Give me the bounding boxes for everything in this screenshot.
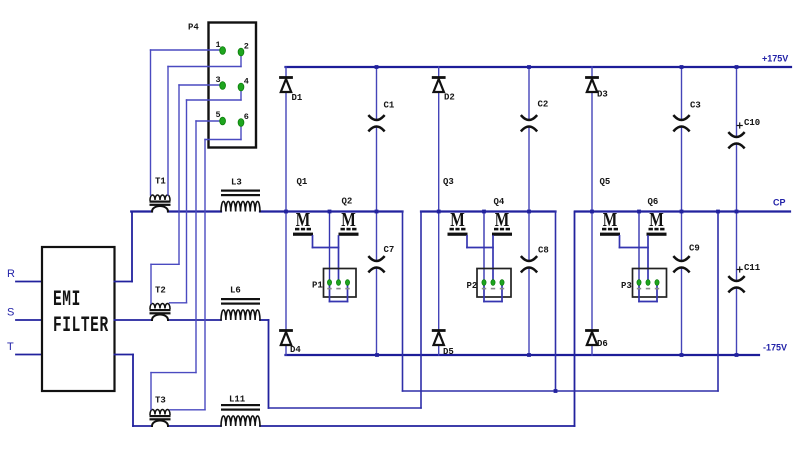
svg-text:C3: C3 xyxy=(690,101,701,111)
wire T input xyxy=(16,354,42,356)
svg-text:P4: P4 xyxy=(188,23,199,33)
capacitor C11 xyxy=(729,263,761,292)
wire CP phase A segment xyxy=(131,210,402,212)
svg-text:Q1: Q1 xyxy=(297,177,308,187)
transistor Q3 (MOSFET) xyxy=(443,177,468,236)
wire C10/C11 branch xyxy=(736,67,738,355)
wire P4 pin5 to T3 xyxy=(151,121,223,410)
wire EMI output T run xyxy=(115,212,575,427)
phase B main vertical wire (D2/D5 branch) xyxy=(438,67,440,355)
svg-text:6: 6 xyxy=(244,112,249,122)
transformer T2 xyxy=(150,286,171,321)
svg-text:D1: D1 xyxy=(292,93,303,103)
svg-text:L3: L3 xyxy=(231,178,242,188)
svg-text:T1: T1 xyxy=(155,177,166,187)
transistor Q5 (MOSFET) xyxy=(600,177,621,236)
svg-text:M: M xyxy=(649,209,664,231)
P2 pins xyxy=(482,280,504,286)
EMI filter box U-EMI xyxy=(42,247,115,391)
wire CP tap to P1 pin1 xyxy=(329,212,331,283)
wire P2 pin1-pin3 jumper loop xyxy=(484,285,502,302)
P3 pins xyxy=(637,280,659,286)
svg-text:1: 1 xyxy=(216,40,221,50)
svg-text:M: M xyxy=(296,209,311,231)
wire EMI output R to phase A xyxy=(115,281,133,283)
P1 pins xyxy=(327,280,349,286)
capacitor C2 xyxy=(522,100,549,131)
svg-text:D6: D6 xyxy=(597,339,608,349)
wire CP lower return bus xyxy=(403,212,719,392)
wire Q3/Q4 source join to P2 pin2 xyxy=(467,236,493,282)
svg-text:Q6: Q6 xyxy=(648,197,659,207)
svg-text:CP: CP xyxy=(773,198,786,208)
capacitor C7 xyxy=(369,245,394,272)
svg-text:Q5: Q5 xyxy=(600,177,611,187)
wire P4 pin6 to T3 xyxy=(170,123,241,410)
connector P4 xyxy=(188,23,256,148)
svg-text:FILTER: FILTER xyxy=(53,313,109,338)
+175V rail xyxy=(286,66,792,68)
P4 pin numbers xyxy=(216,40,249,122)
inductor L3 xyxy=(221,178,260,212)
capacitor C1 xyxy=(369,101,395,131)
svg-text:P3: P3 xyxy=(621,281,632,291)
wire CP tap to P3 pin1 xyxy=(638,212,640,283)
connector P3 xyxy=(621,269,667,302)
diode D1 xyxy=(281,78,303,104)
svg-text:C9: C9 xyxy=(689,244,700,254)
wire CP tap to P2 pin1 xyxy=(483,212,485,283)
wire P1 pin1-pin3 jumper loop xyxy=(330,285,348,302)
svg-text:3: 3 xyxy=(216,75,221,85)
svg-text:M: M xyxy=(341,209,356,231)
transistor Q2 (MOSFET) xyxy=(339,197,359,236)
svg-text:C8: C8 xyxy=(538,246,549,256)
svg-text:D5: D5 xyxy=(443,347,454,357)
svg-text:C10: C10 xyxy=(744,118,760,128)
svg-text:2: 2 xyxy=(244,42,249,52)
wire phase B feed bus xyxy=(269,212,422,409)
capacitor C3 xyxy=(674,101,701,131)
wire capacitor branch C3/C9 xyxy=(681,67,683,355)
transistor Q4 (MOSFET) xyxy=(492,197,512,236)
-175V rail xyxy=(286,354,760,356)
wire capacitor branch C2/C8 xyxy=(528,67,530,355)
svg-text:EMI: EMI xyxy=(53,287,81,312)
wire P4 pin3 to T2 xyxy=(151,85,223,304)
transistor Q6 (MOSFET) xyxy=(647,197,667,236)
connector P4 pins 1-6 xyxy=(220,47,244,127)
transistor Q1 (MOSFET) xyxy=(293,177,313,236)
svg-text:C11: C11 xyxy=(744,263,761,273)
wire Q5/Q6 source join to P3 pin2 xyxy=(620,236,649,282)
phase C main vertical wire (D3/D6 branch) xyxy=(591,67,593,355)
connector P2 xyxy=(467,269,512,302)
phase A main vertical wire (D1/D4 branch) xyxy=(285,67,287,355)
capacitor C10 xyxy=(729,118,760,148)
svg-text:4: 4 xyxy=(244,77,249,87)
wire S input xyxy=(16,319,42,321)
svg-text:R: R xyxy=(7,268,15,280)
wire P3 pin1-pin3 jumper loop xyxy=(639,285,657,302)
svg-text:+175V: +175V xyxy=(762,54,788,64)
svg-text:P1: P1 xyxy=(312,281,323,291)
svg-text:Q2: Q2 xyxy=(342,197,353,207)
wire CP phase C segment xyxy=(575,210,790,212)
wire P4 pin1 to T1 xyxy=(151,50,223,195)
svg-text:D3: D3 xyxy=(597,90,608,100)
svg-text:D2: D2 xyxy=(444,93,455,103)
svg-text:C2: C2 xyxy=(538,100,549,110)
svg-text:T2: T2 xyxy=(155,286,166,296)
diode D4 xyxy=(281,331,302,356)
wire capacitor branch C1/C7 xyxy=(376,67,378,355)
transformer T1 xyxy=(150,177,171,212)
svg-text:C7: C7 xyxy=(384,245,395,255)
wire R input xyxy=(16,281,42,283)
svg-text:D4: D4 xyxy=(290,345,301,355)
wire P4 pin4 to T2 xyxy=(170,87,242,303)
svg-text:M: M xyxy=(450,209,465,231)
svg-text:T: T xyxy=(7,341,14,353)
diode D3 xyxy=(587,78,608,100)
wire P4 pin2 to T1 xyxy=(168,52,241,195)
svg-text:M: M xyxy=(603,209,618,231)
inductor L6 xyxy=(221,286,260,321)
svg-text:T3: T3 xyxy=(155,396,166,406)
inductor L11 xyxy=(221,395,260,427)
svg-text:Q4: Q4 xyxy=(494,197,505,207)
svg-text:L6: L6 xyxy=(230,286,241,296)
svg-text:C1: C1 xyxy=(384,101,395,111)
svg-text:P2: P2 xyxy=(467,281,478,291)
diode D2 xyxy=(433,78,455,103)
svg-text:S: S xyxy=(7,307,14,319)
svg-text:M: M xyxy=(495,209,510,231)
svg-text:-175V: -175V xyxy=(763,343,787,353)
diode D5 xyxy=(433,331,454,358)
svg-text:Q3: Q3 xyxy=(443,177,454,187)
wire Q1/Q2 source join to P1 pin2 xyxy=(313,236,339,282)
capacitor C9 xyxy=(674,244,700,272)
connector P1 xyxy=(312,269,356,302)
svg-text:5: 5 xyxy=(216,110,221,120)
wire EMI output S run xyxy=(115,320,269,408)
wire CP phase B segment xyxy=(421,210,556,212)
transformer T3 xyxy=(150,396,171,427)
diode D6 xyxy=(587,331,608,350)
svg-text:L11: L11 xyxy=(229,395,246,405)
capacitor C8 xyxy=(522,246,549,272)
